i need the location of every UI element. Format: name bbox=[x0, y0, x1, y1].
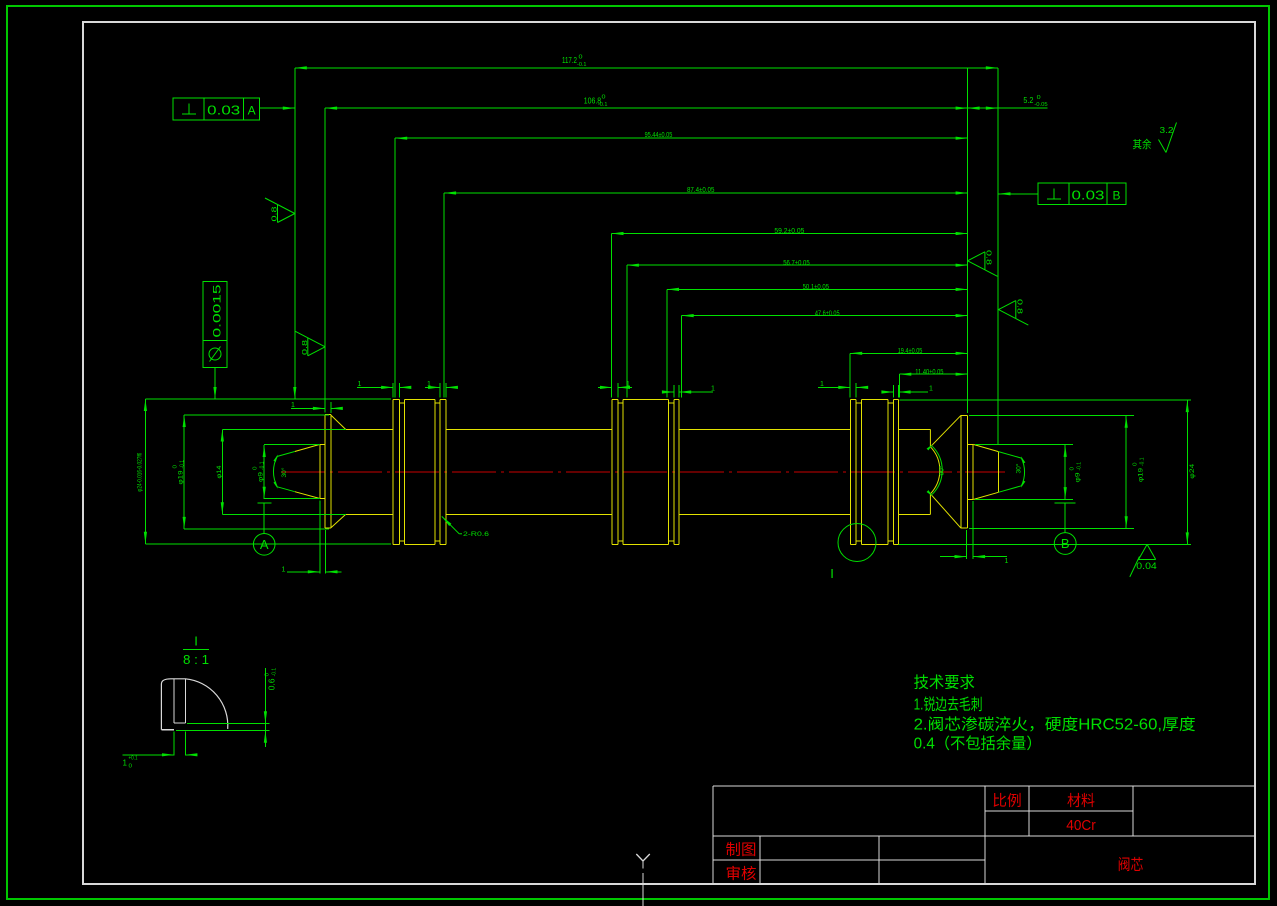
left cone tip (truncated) bbox=[295, 444, 325, 498]
extension line v10 (x=899.3) bbox=[898, 374, 900, 397]
small dim 1 (right end bottom) bbox=[940, 555, 1009, 565]
detail view profile (white) bbox=[161, 679, 227, 730]
svg-text:0.03: 0.03 bbox=[1072, 188, 1105, 203]
neck section 2 (between land1 and land2) bbox=[446, 430, 612, 515]
label phi9 0/-0.1 (right) bbox=[1070, 462, 1083, 483]
shaft land 1 (phi24 land with grooves) bbox=[393, 399, 446, 544]
svg-text:-0.1: -0.1 bbox=[259, 461, 265, 470]
svg-text:1: 1 bbox=[123, 759, 128, 768]
default roughness 3.2 symbol with 其余 bbox=[1133, 123, 1177, 153]
extension lines for phi9 right dim bbox=[975, 444, 1073, 499]
extension lines for phi9 left dim bbox=[264, 444, 320, 498]
extension lines for phi14 left dim bbox=[222, 430, 346, 515]
svg-text:0: 0 bbox=[1070, 467, 1076, 471]
GDT frame perpendicularity 0.03 A bbox=[173, 98, 259, 120]
right end disc bbox=[961, 415, 967, 528]
svg-text:0.8: 0.8 bbox=[1016, 299, 1023, 314]
svg-text:φ19: φ19 bbox=[178, 470, 185, 484]
svg-text:1: 1 bbox=[711, 386, 715, 393]
svg-text:1: 1 bbox=[427, 381, 431, 388]
shaft land 3 (phi24 land with grooves) bbox=[850, 399, 898, 544]
svg-text:90°: 90° bbox=[939, 465, 946, 476]
label M24 thread/tolerance bbox=[137, 452, 144, 491]
datum B symbol bbox=[1054, 503, 1076, 554]
Y coordinate mark at bottom center bbox=[636, 854, 650, 906]
runout 0.04 symbol bbox=[1130, 544, 1157, 577]
svg-text:φ19: φ19 bbox=[1138, 468, 1145, 482]
dimension phi9 (left) bbox=[263, 445, 266, 499]
svg-text:3.2: 3.2 bbox=[1160, 125, 1174, 135]
svg-text:1: 1 bbox=[358, 381, 362, 388]
svg-text:0.04: 0.04 bbox=[1136, 561, 1157, 571]
svg-text:11.40±0.05: 11.40±0.05 bbox=[915, 367, 943, 376]
dimension 47.6 bbox=[682, 314, 968, 317]
roughness 0.8 on v1 bbox=[265, 198, 295, 223]
extension line v1 (left tip face x=294.8) with down arrow bbox=[293, 68, 296, 399]
right cone tip (truncated) bbox=[967, 444, 998, 499]
svg-text:0.8: 0.8 bbox=[272, 206, 279, 221]
right cone apex construction and 30 deg dim bbox=[998, 452, 1025, 493]
small dim 1 (land1 right ring) bbox=[425, 381, 458, 389]
svg-text:0: 0 bbox=[579, 55, 583, 61]
svg-text:0: 0 bbox=[602, 95, 606, 101]
detail circle I on land3 bbox=[838, 524, 876, 562]
dimension 19.4 bbox=[850, 352, 967, 355]
svg-text:0.6: 0.6 bbox=[268, 678, 277, 691]
svg-text:-0.05: -0.05 bbox=[1034, 102, 1047, 108]
detail dim 1 +0.1/0 (groove width) bbox=[123, 732, 198, 770]
dimension phi14 (left) bbox=[221, 430, 224, 515]
small dim 1 (land3 left ring) bbox=[818, 381, 868, 389]
left cone apex construction and 30 deg dim bbox=[273, 452, 294, 492]
svg-text:56.7±0.05: 56.7±0.05 bbox=[783, 258, 810, 267]
leader from frame B to v12 bbox=[999, 192, 1039, 195]
label 117.2 0/-0.1 bbox=[562, 55, 587, 68]
dimension phi9 (right) bbox=[1064, 445, 1067, 499]
svg-text:0: 0 bbox=[173, 465, 179, 469]
extension line v2 (x=325.1) bbox=[324, 108, 326, 413]
label 106.8 0/-0.1 bbox=[584, 95, 608, 108]
small dim 1 (left end bottom) bbox=[282, 566, 342, 573]
svg-text:阀芯: 阀芯 bbox=[1118, 857, 1144, 874]
svg-text:30°: 30° bbox=[1015, 463, 1022, 474]
left end disc bbox=[325, 415, 331, 528]
extension line v5 (x=611.5) bbox=[611, 234, 613, 398]
svg-text:59.2±0.05: 59.2±0.05 bbox=[774, 226, 804, 235]
svg-text:0.8: 0.8 bbox=[302, 340, 309, 355]
neck section 3 (between land2 and land3) bbox=[679, 430, 850, 515]
svg-text:0.0015: 0.0015 bbox=[212, 285, 224, 338]
svg-text:-0.1: -0.1 bbox=[179, 460, 185, 469]
svg-text:审核: 审核 bbox=[726, 866, 757, 883]
svg-text:-0.1: -0.1 bbox=[1076, 462, 1082, 471]
extension line v12 (x=997.8) bbox=[997, 68, 999, 444]
svg-text:φ9: φ9 bbox=[1075, 472, 1082, 482]
dimension 87.4 bbox=[444, 191, 968, 194]
label phi19 0/-0.1 (right) bbox=[1133, 457, 1146, 482]
svg-text:φ9: φ9 bbox=[258, 472, 265, 482]
svg-text:5.2: 5.2 bbox=[1023, 96, 1033, 105]
svg-text:I: I bbox=[830, 566, 834, 581]
label 0.6 0/-0.1 rotated bbox=[265, 668, 278, 691]
dimension phi19 (right) bbox=[1125, 416, 1128, 528]
label phi19 0/-0.1 (left) bbox=[173, 460, 186, 485]
label phi9 0/-0.1 (left) bbox=[253, 461, 266, 482]
svg-text:0: 0 bbox=[253, 466, 259, 470]
small dim 1 (land2 right ring) bbox=[662, 386, 715, 394]
extension lines for phi24 right dim bbox=[899, 400, 1191, 544]
shaft land 2 (phi24 land with grooves) bbox=[612, 399, 679, 544]
svg-text:30°: 30° bbox=[281, 467, 288, 478]
roughness 0.8 on v11 bbox=[968, 252, 998, 276]
label phi24 (right) bbox=[1189, 463, 1196, 478]
extension line v7 (x=667.0) bbox=[666, 289, 668, 397]
roughness 0.8 on v2 bbox=[295, 331, 325, 356]
svg-text:0.8: 0.8 bbox=[985, 250, 992, 265]
neck section 1 (phi14 between left end and land1) bbox=[331, 415, 393, 528]
leader 2-R0.6 bbox=[441, 515, 490, 538]
dimension 95.44 bbox=[395, 137, 967, 140]
extension line v4 (x=444.1) bbox=[443, 193, 445, 398]
extension line v8 (x=681.7) bbox=[681, 316, 683, 398]
svg-text:1: 1 bbox=[291, 402, 295, 409]
small dim 1 (land1 left ring) bbox=[357, 381, 411, 389]
svg-text:117.2: 117.2 bbox=[562, 56, 577, 65]
GDT frame cylindricity 0.0015 bbox=[203, 281, 227, 367]
dimension 11.40 bbox=[899, 373, 967, 376]
svg-text:-0.1: -0.1 bbox=[271, 668, 277, 677]
svg-text:2-R0.6: 2-R0.6 bbox=[463, 531, 490, 538]
svg-text:其余: 其余 bbox=[1133, 137, 1152, 151]
dimension phi19 (left) bbox=[183, 415, 186, 529]
svg-text:8 : 1: 8 : 1 bbox=[183, 652, 209, 667]
title block grid bbox=[713, 786, 1255, 884]
svg-text:1: 1 bbox=[282, 566, 286, 573]
technical requirements text block bbox=[914, 674, 1196, 753]
label 30 deg (right) bbox=[1015, 463, 1022, 474]
svg-text:B: B bbox=[1112, 189, 1120, 203]
GDT frame perpendicularity 0.03 B bbox=[1038, 183, 1126, 205]
detail dim 0.6 (groove depth) bbox=[176, 668, 270, 747]
svg-text:I: I bbox=[194, 633, 198, 648]
dimension 106.8 bbox=[325, 107, 968, 110]
datum A symbol bbox=[253, 503, 275, 555]
90 deg cone angle dim at sealing cone bbox=[927, 443, 943, 497]
dimension phi24 with thread tolerance (left) bbox=[144, 399, 147, 544]
svg-text:制图: 制图 bbox=[726, 842, 757, 859]
leader from 0.0015 frame down bbox=[213, 367, 216, 399]
label phi14 bbox=[216, 465, 223, 478]
svg-text:φ24-0.016-0.027f6: φ24-0.016-0.027f6 bbox=[137, 452, 144, 491]
svg-text:A: A bbox=[260, 537, 269, 552]
svg-text:-0.1: -0.1 bbox=[598, 102, 608, 108]
svg-text:0: 0 bbox=[1133, 462, 1139, 466]
svg-text:0: 0 bbox=[129, 764, 133, 770]
shaft centerline (red dash-dot) bbox=[281, 471, 1005, 473]
dimension 5.2 (tip length) bbox=[968, 107, 1048, 110]
small dim 1 (left end disc top) bbox=[291, 402, 343, 410]
svg-text:+0.1: +0.1 bbox=[129, 756, 138, 762]
svg-text:1: 1 bbox=[626, 381, 630, 388]
extension line v3 (x=395.2) bbox=[394, 138, 396, 397]
extension lines for phi19 left dim bbox=[184, 415, 329, 529]
svg-text:19.4±0.05: 19.4±0.05 bbox=[898, 346, 923, 355]
svg-text:A: A bbox=[248, 104, 256, 118]
svg-text:B: B bbox=[1061, 536, 1070, 551]
svg-text:50.1±0.05: 50.1±0.05 bbox=[803, 282, 829, 291]
svg-text:95.44±0.05: 95.44±0.05 bbox=[645, 130, 673, 139]
dimension 56.7 bbox=[627, 264, 968, 267]
small dim 1 (land3 right ring) bbox=[881, 386, 933, 394]
svg-text:0: 0 bbox=[1037, 95, 1041, 101]
extension lines for phi19 right dim bbox=[969, 415, 1134, 528]
extension line v6 (x=626.9) bbox=[626, 265, 628, 397]
extension line v11 (x=967.3) bbox=[966, 68, 968, 413]
svg-text:材料: 材料 bbox=[1067, 793, 1095, 810]
small dim 1 (land2 left ring) bbox=[598, 381, 632, 389]
label 5.2 0/-0.05 bbox=[1023, 95, 1047, 108]
roughness 0.8 on v12 bbox=[999, 301, 1029, 326]
detail view title I 8:1 bbox=[183, 633, 209, 667]
svg-text:1.锐边去毛刺: 1.锐边去毛刺 bbox=[914, 695, 983, 713]
svg-text:φ14: φ14 bbox=[216, 465, 223, 478]
dimension phi24 (right) bbox=[1186, 400, 1189, 544]
svg-text:0: 0 bbox=[265, 673, 271, 677]
extension line v9 (x=850.2) bbox=[849, 353, 851, 397]
label 30 deg (left) bbox=[281, 467, 288, 478]
svg-text:0.4（不包括余量）: 0.4（不包括余量） bbox=[914, 733, 1042, 752]
leader from frame A to v1 bbox=[260, 107, 295, 110]
svg-text:φ24: φ24 bbox=[1189, 463, 1196, 478]
svg-text:-0.1: -0.1 bbox=[1139, 457, 1145, 466]
svg-text:1: 1 bbox=[929, 386, 933, 393]
dimension 117.2 overall length bbox=[295, 66, 998, 69]
svg-text:比例: 比例 bbox=[992, 793, 1021, 810]
svg-text:47.6±0.05: 47.6±0.05 bbox=[815, 308, 840, 317]
svg-text:-0.1: -0.1 bbox=[577, 62, 587, 68]
svg-text:40Cr: 40Cr bbox=[1066, 818, 1096, 834]
svg-text:2.阀芯渗碳淬火，硬度HRC52-60,厚度: 2.阀芯渗碳淬火，硬度HRC52-60,厚度 bbox=[914, 716, 1196, 734]
svg-text:87.4±0.05: 87.4±0.05 bbox=[687, 185, 714, 194]
svg-text:技术要求: 技术要求 bbox=[914, 674, 975, 692]
label 90 deg bbox=[939, 465, 946, 476]
extension lines for phi24 left dim bbox=[145, 399, 391, 544]
svg-text:1: 1 bbox=[1005, 558, 1009, 565]
dimension 59.2 bbox=[612, 232, 968, 235]
neck section 4 and sealing cone with R6 groove bbox=[899, 415, 961, 528]
svg-text:0.03: 0.03 bbox=[207, 103, 240, 118]
dimension 50.1 bbox=[667, 288, 968, 291]
svg-text:1: 1 bbox=[820, 381, 824, 388]
